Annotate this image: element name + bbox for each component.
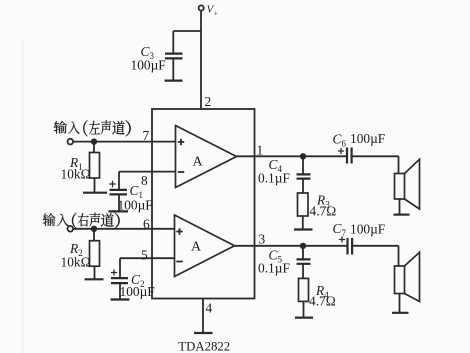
pin number 8 xyxy=(141,173,148,188)
pin number 5 xyxy=(141,248,148,263)
ground bar R4 xyxy=(295,317,313,319)
label V+ xyxy=(207,4,219,18)
capacitor C4 xyxy=(297,156,311,193)
capacitor C2 xyxy=(111,258,128,299)
resistor R4 xyxy=(299,278,309,317)
capacitor C6 xyxy=(338,148,352,164)
svg-text:1: 1 xyxy=(257,143,264,158)
label A op-amp U1a xyxy=(192,155,203,170)
svg-text:3: 3 xyxy=(259,232,266,247)
op-amp IC box TDA2822 xyxy=(152,109,255,299)
wire pin 5 xyxy=(120,257,175,259)
svg-text:2: 2 xyxy=(205,94,212,109)
ground bar C1 xyxy=(109,210,129,212)
value label C6 xyxy=(333,131,386,149)
pin number 3 xyxy=(259,232,266,247)
node V+ terminal xyxy=(199,5,204,10)
node junction R2 xyxy=(92,227,97,232)
capacitor C1 xyxy=(109,172,127,211)
svg-text:5: 5 xyxy=(141,248,148,263)
speaker LS2 xyxy=(395,252,420,312)
value label C7 xyxy=(333,221,386,238)
ground bar C2 xyxy=(111,298,130,300)
svg-text:100µF: 100µF xyxy=(118,198,153,213)
capacitor C3 xyxy=(165,31,183,80)
resistor R2 xyxy=(90,231,100,279)
speaker LS1 xyxy=(395,159,420,214)
ground bar pin 4 xyxy=(194,332,213,334)
node input left terminal xyxy=(68,139,74,145)
svg-text:10kΩ: 10kΩ xyxy=(61,255,91,270)
label A op-amp U1b xyxy=(191,240,202,255)
value label C5 xyxy=(258,247,290,275)
wire C6 to speaker xyxy=(352,156,399,173)
value label C2 xyxy=(120,272,155,299)
node input right terminal xyxy=(68,226,74,232)
svg-text:0.1µF: 0.1µF xyxy=(258,171,290,186)
wire C7 to speaker xyxy=(352,246,398,266)
ground bar R3 xyxy=(294,228,313,230)
wire pin 6 input xyxy=(73,228,174,230)
value label R4 xyxy=(309,283,336,309)
svg-text:C6: C6 xyxy=(333,132,347,149)
node junction C5 xyxy=(301,244,306,249)
svg-text:4: 4 xyxy=(206,301,213,316)
node junction C4 xyxy=(301,154,306,159)
wire pin 7 input xyxy=(73,141,175,143)
node junction R1 xyxy=(92,139,97,144)
wire C3 branch horizontal xyxy=(173,30,201,32)
svg-text:100µF: 100µF xyxy=(120,284,155,299)
ground bar C3 xyxy=(165,79,183,81)
value label R1 xyxy=(61,155,91,182)
label input right channel (CJK) xyxy=(43,213,120,229)
value label C1 xyxy=(118,183,153,212)
svg-text:6: 6 xyxy=(143,217,150,232)
wire pin 8 xyxy=(119,171,176,173)
svg-text:A: A xyxy=(192,155,203,170)
pin number 4 xyxy=(206,301,213,316)
svg-text:7: 7 xyxy=(143,128,150,143)
capacitor C5 xyxy=(297,246,311,279)
ground bar R1 xyxy=(83,192,107,194)
label input left channel (CJK) xyxy=(54,120,131,136)
value label C4 xyxy=(258,157,290,186)
wire output pin 3 xyxy=(235,245,348,247)
op-amp U1b xyxy=(175,215,235,277)
op-amp U1a xyxy=(176,126,237,188)
svg-text:0.1µF: 0.1µF xyxy=(258,261,290,276)
capacitor C7 xyxy=(339,237,352,255)
svg-text:4.7Ω: 4.7Ω xyxy=(310,204,337,219)
pin number 7 xyxy=(143,128,150,143)
resistor R1 xyxy=(90,144,100,193)
svg-text:4.7Ω: 4.7Ω xyxy=(309,294,336,309)
wire V+ vertical to pin 2 xyxy=(200,11,202,109)
svg-text:100µF: 100µF xyxy=(350,131,385,146)
svg-text:100µF: 100µF xyxy=(131,58,166,73)
pin number 6 xyxy=(143,217,150,232)
svg-text:A: A xyxy=(191,240,202,255)
svg-text:C7: C7 xyxy=(333,221,347,238)
svg-text:100µF: 100µF xyxy=(350,222,385,237)
value label C3 xyxy=(131,44,166,73)
wire output pin 1 xyxy=(237,155,348,157)
value label R2 xyxy=(61,241,91,270)
svg-text:V+: V+ xyxy=(207,4,219,18)
value label R3 xyxy=(310,193,337,219)
svg-text:10kΩ: 10kΩ xyxy=(61,167,91,182)
pin number 2 xyxy=(205,94,212,109)
svg-text:8: 8 xyxy=(141,173,148,188)
svg-text:TDA2822: TDA2822 xyxy=(178,340,230,353)
ground bar LS1 xyxy=(394,214,410,216)
ground bar R2 xyxy=(85,278,104,280)
wire pin 4 xyxy=(202,299,204,334)
resistor R3 xyxy=(298,193,309,229)
label TDA2822 xyxy=(178,340,230,353)
pin number 1 xyxy=(257,143,264,158)
ground bar LS2 xyxy=(392,312,409,314)
